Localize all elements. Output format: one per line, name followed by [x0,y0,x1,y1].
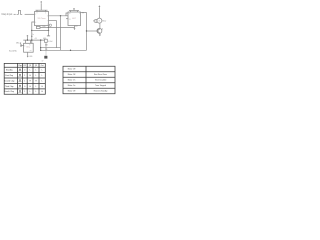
wire vertical x56.5 [56,21,58,48]
table truth-table row labels [4,69,14,94]
svg-text:Clap: Clap [18,65,22,67]
svg-text:H: H [29,80,31,82]
wire U2 gnd stub pin13 [75,25,78,28]
capacitor C3 box [45,39,48,42]
node junction dot [70,50,71,51]
node junction dot [60,15,61,16]
wire y47.7 [41,47,61,49]
svg-text:L: L [36,70,37,72]
wire amp gnd [27,52,29,56]
wire U2 pin14 stub [66,13,68,16]
svg-text:IC1: IC1 [23,65,26,67]
op-amp U1 555 timer box [35,12,49,26]
resistor R1 [36,26,40,28]
svg-text:Motor Off: Motor Off [68,90,76,93]
svg-text:H: H [29,75,31,77]
svg-text:L: L [36,86,37,88]
wire U1 pin7 [49,20,57,22]
wire ground bus [41,49,87,51]
wire vertical x40.7 [40,40,42,50]
svg-text:Motor: Motor [102,19,107,22]
svg-text:MIC: MIC [16,43,20,45]
svg-text:L: L [42,80,43,82]
polarity plus mark [93,20,94,21]
table truth-table header text [18,64,44,67]
wire U2 gnd pin [74,26,76,29]
svg-text:H: H [41,91,43,93]
svg-text:Timer Stopped: Timer Stopped [95,84,106,87]
motor M1 [97,18,102,23]
svg-text:Q1: Q1 [101,29,103,31]
table legend col1 text [68,68,76,93]
wire VCC rail U2 [69,10,79,12]
svg-text:1: 1 [24,75,25,77]
svg-text:1: 1 [24,80,25,82]
svg-text:1u: 1u [32,34,34,36]
svg-text:13: 13 [69,19,71,21]
svg-text:Sound Mic: Sound Mic [9,50,17,52]
table legend borders [63,66,115,94]
svg-text:Fourth Clap: Fourth Clap [5,90,14,93]
table legend col2 text [94,73,108,93]
svg-text:Start Reset Timer: Start Reset Timer [94,73,108,76]
op-amp U2 4017 counter box [68,12,81,26]
wire to blob [45,49,47,56]
power +V U2 [73,8,75,10]
table truth-table borders [4,63,45,94]
svg-text:Third Clap: Third Clap [5,86,13,88]
svg-text:Out: Out [41,64,44,67]
power +V motor [99,6,101,8]
microphone MIC1 [20,43,21,44]
svg-text:Clap Input: Clap Input [1,13,12,16]
wire VCC rail U1 [36,3,48,11]
node junction dot [31,36,32,37]
node junction dot [31,39,32,40]
node junction dot [86,30,87,31]
node junction dot [27,39,28,40]
wire input to IC1 [25,13,35,15]
wire mic VCC rail [23,37,44,44]
svg-text:0: 0 [24,86,25,88]
svg-text:H: H [41,86,43,88]
power +V U1 [40,1,42,3]
transistor Q1 [97,23,102,34]
ground arrow U2 [74,28,76,30]
node junction dot [31,30,32,31]
svg-text:4017: 4017 [72,18,76,20]
svg-text:L: L [36,91,37,93]
mic power plus [27,35,29,37]
svg-text:GND: GND [29,56,32,58]
svg-text:Standby: Standby [6,69,13,72]
node junction dot [40,39,41,40]
svg-text:L: L [42,75,43,77]
ground arrow amp [27,56,29,58]
wire +V to motor [98,7,100,18]
ground bar C3 [45,44,47,46]
svg-text:1: 1 [24,91,25,93]
node input pulse waveform [14,10,23,14]
wire U1 pin1 down [48,26,50,36]
svg-text:14: 14 [69,13,71,15]
svg-text:Motor On: Motor On [68,79,76,82]
diode D1 box [95,19,97,22]
svg-text:L: L [36,75,37,77]
table truth-table cell values [24,70,43,94]
wire mic to amp [21,45,23,47]
svg-text:L: L [30,70,31,72]
svg-text:Q2: Q2 [35,65,37,67]
wire base [87,30,98,32]
node junction dot [40,47,41,48]
svg-text:Q1: Q1 [29,65,31,67]
svg-text:First Clap: First Clap [5,74,13,77]
svg-text:L: L [42,70,43,72]
svg-text:Motor Off: Motor Off [68,68,76,71]
svg-text:H: H [29,86,31,88]
svg-text:L: L [30,91,31,93]
node junction dot [48,30,49,31]
wire C3 down [45,42,47,49]
node junction dot [48,27,49,28]
wire vertical x60.5 [60,16,62,51]
ground bar U1 [47,35,50,37]
wire R1 to IC2 gnd pin [40,26,75,28]
svg-text:Second Clap: Second Clap [4,80,14,82]
ground bar 2 [45,48,47,50]
wire U1 pin2 to mic rail [32,22,35,43]
wire U2 pin13 stub [66,18,68,20]
wire y30.4 [32,29,49,31]
ground arrow Q1 emitter [99,35,101,37]
node dark marker blob [44,56,47,59]
wire U2 output to transistor [81,13,87,51]
wire U1 pin3 to U2 [49,15,69,17]
node junction dot [82,12,83,13]
svg-text:555 Timer: 555 Timer [38,18,46,20]
svg-text:0V: 0V [42,61,44,63]
svg-text:0: 0 [24,70,25,72]
svg-text:H: H [35,80,37,82]
op-amp U3 mic amplifier box [24,43,34,52]
node junction dot [40,50,41,51]
table truth-table pulse glyphs [19,69,22,93]
svg-text:Motor Off: Motor Off [68,73,76,76]
svg-text:Timer Disabled: Timer Disabled [95,79,106,82]
capacitor C4 bubble at U1 pin [49,24,51,26]
svg-text:Return to Standby: Return to Standby [94,90,108,93]
svg-text:0.01uF: 0.01uF [48,41,52,43]
svg-text:Motor On: Motor On [68,84,76,87]
